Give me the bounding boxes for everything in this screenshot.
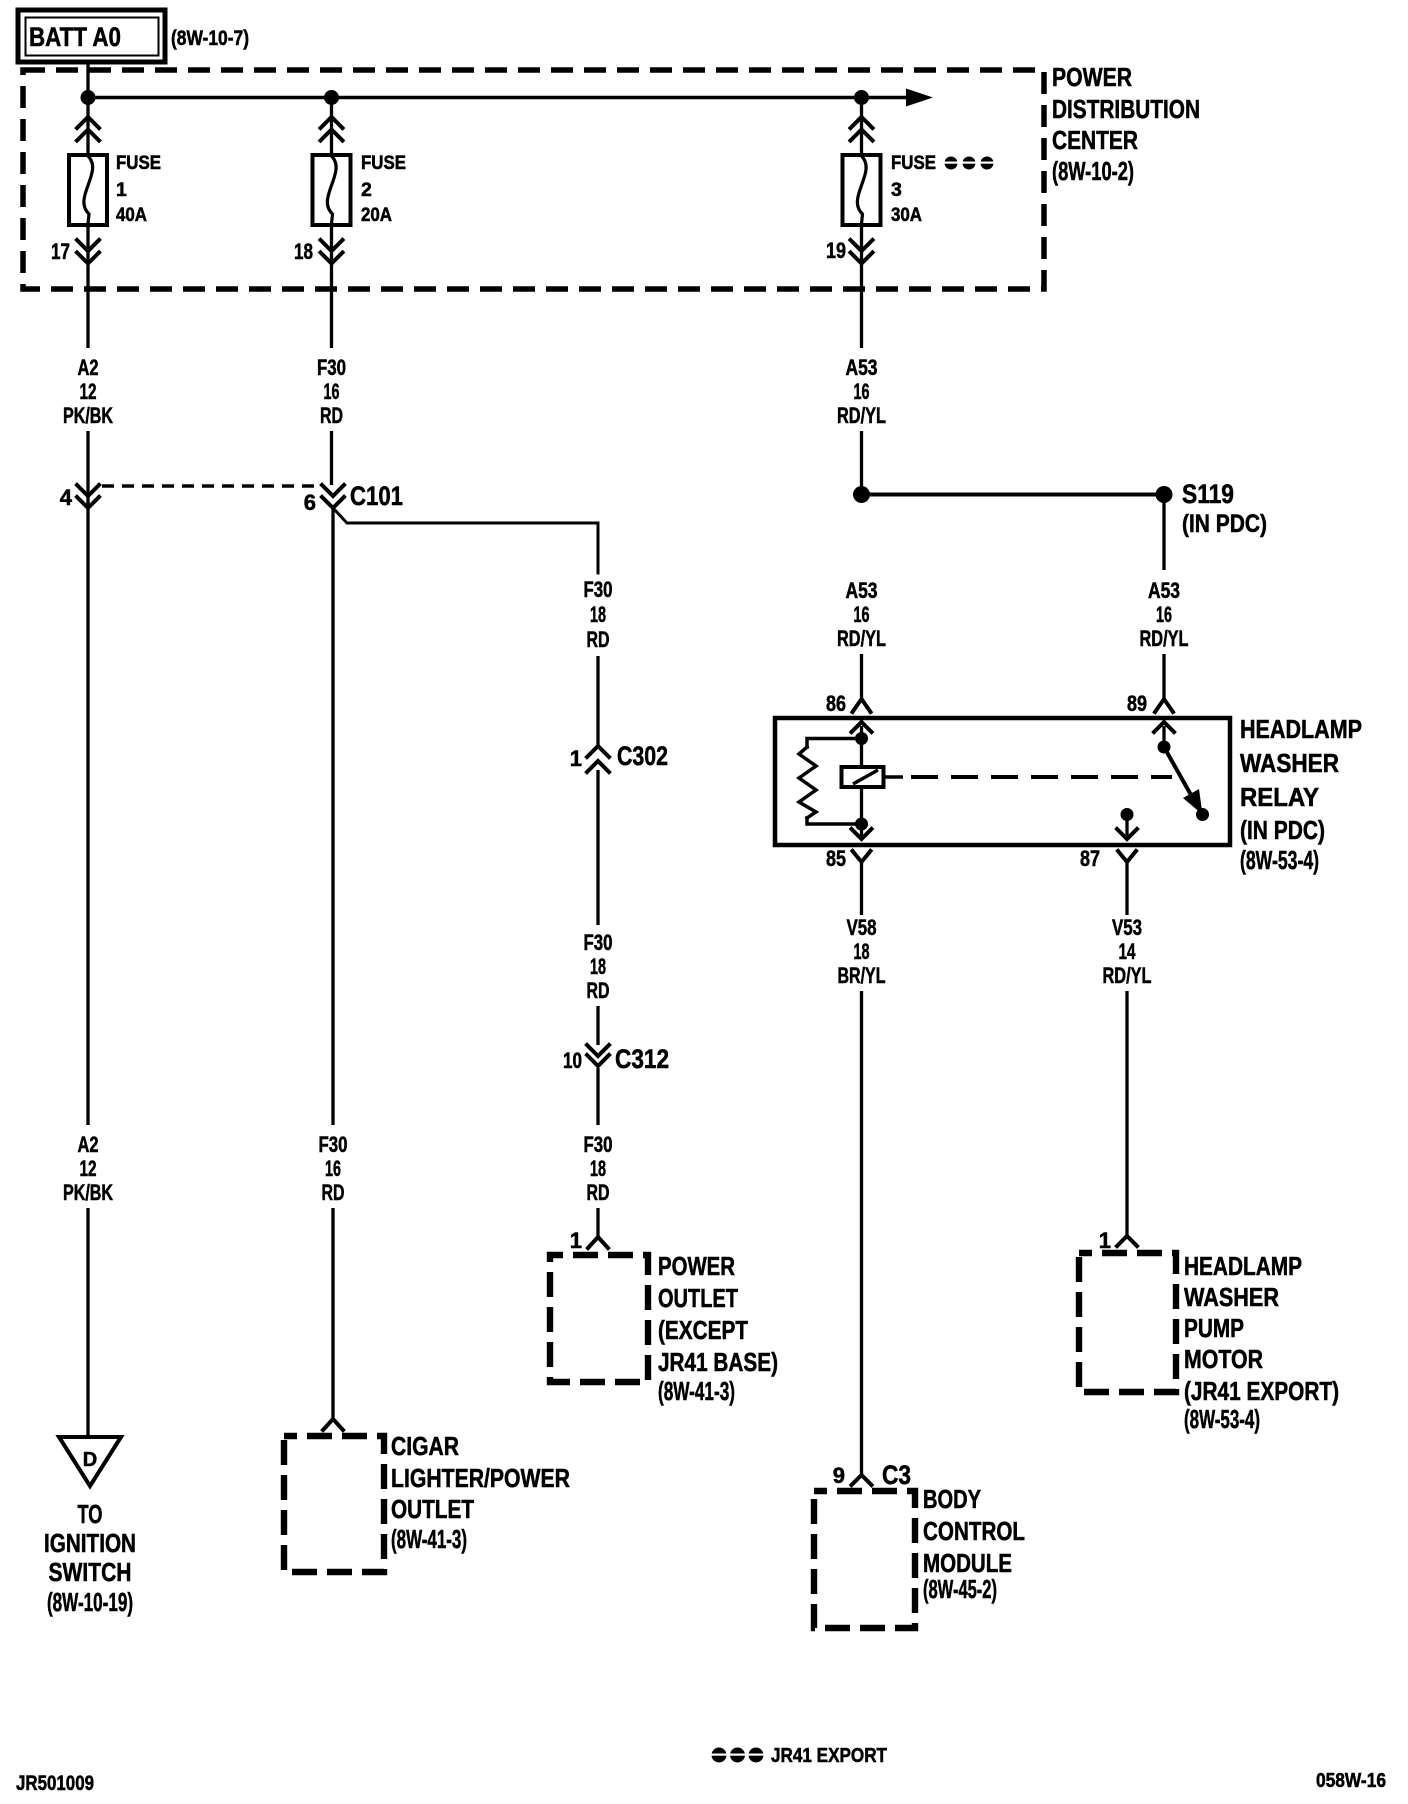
connector C101 chevrons pin 6 [322,485,344,508]
svg-text:3: 3 [891,179,902,201]
svg-text:1: 1 [116,179,127,201]
power distribution center box [23,70,1044,289]
relay pin 86 internal [852,722,872,738]
wire F30 18 below C312 [596,1068,599,1125]
wire label F30 18 RD first [584,577,613,652]
svg-text:MOTOR: MOTOR [1184,1344,1263,1374]
headlamp washer pump motor box [1079,1253,1176,1392]
relay switch pivot node [1158,741,1171,754]
fuse F2 20A [313,152,407,226]
svg-text:WASHER: WASHER [1184,1282,1279,1312]
svg-text:86: 86 [826,691,846,716]
svg-text:12: 12 [80,1156,97,1181]
svg-text:F30: F30 [584,1132,613,1157]
svg-text:C3: C3 [882,1460,911,1490]
svg-text:RD: RD [587,627,610,652]
pin 10 label C312 [563,1048,582,1073]
relay pin 85 internal [852,824,872,839]
wire A53 to relay pin 89 [1155,654,1173,712]
svg-text:6: 6 [304,490,316,515]
svg-text:18: 18 [294,239,313,264]
svg-text:14: 14 [1119,939,1137,964]
wire label A2 12 PK/BK lower [63,1132,113,1205]
junction node fuse 2 tap [324,90,339,105]
wire coil bottom [860,787,863,824]
svg-text:A53: A53 [1148,578,1180,603]
label S119 (IN PDC) [1182,479,1267,538]
wire BATT A0 to bus [86,62,89,98]
wire F30 18 between C302 and label [596,770,599,925]
svg-text:85: 85 [826,846,846,871]
wire V53 to washer pump motor [1117,991,1137,1246]
svg-text:(EXCEPT: (EXCEPT [658,1315,748,1345]
pin 1 label power outlet [570,1228,582,1253]
wire S119 down [1162,495,1165,571]
fuse 3 option dots [945,157,994,170]
relay actuation dashed line [884,775,1172,779]
wire F30 18 above C312 [596,1006,599,1045]
svg-text:JR501009: JR501009 [16,1772,94,1795]
svg-text:POWER: POWER [658,1251,735,1281]
svg-text:IGNITION: IGNITION [44,1528,136,1558]
wire label A2 12 PK/BK upper [63,355,113,428]
cigar lighter/power outlet box [284,1436,384,1572]
svg-text:BODY: BODY [923,1484,981,1514]
svg-text:BATT A0: BATT A0 [29,22,121,52]
branch wire C101 to F30 18 RD [333,508,598,573]
svg-text:16: 16 [854,602,870,627]
relay switch blade [1164,747,1209,821]
svg-text:20A: 20A [361,204,392,226]
page number 058W-16 [1316,1770,1386,1792]
svg-text:89: 89 [1127,691,1147,716]
wire splice S119 [862,493,1165,497]
label CIGAR LIGHTER/POWER OUTLET (8W-41-3) [391,1431,570,1554]
svg-text:(IN PDC): (IN PDC) [1182,510,1267,538]
pin 1 label C302 [570,746,582,771]
connector C101 label [350,481,403,511]
svg-text:RD: RD [587,978,610,1003]
svg-text:A53: A53 [846,578,878,603]
svg-text:9: 9 [833,1463,845,1488]
svg-text:JR41 EXPORT: JR41 EXPORT [771,1745,887,1767]
connector 4 chevrons [77,485,99,508]
svg-text:16: 16 [325,1156,341,1181]
svg-text:17: 17 [51,239,70,264]
svg-text:PK/BK: PK/BK [63,403,113,428]
label HEADLAMP WASHER PUMP MOTOR (JR41 EXPORT) (8W-53-4) [1184,1251,1339,1434]
pin 17 label [51,239,70,264]
pin 6 label [304,490,316,515]
pin 86 label [826,691,846,716]
svg-text:BR/YL: BR/YL [838,963,886,988]
power outlet box [550,1255,648,1382]
svg-text:F30: F30 [584,930,613,955]
svg-text:(IN PDC): (IN PDC) [1240,815,1325,845]
svg-text:4: 4 [60,485,73,510]
fuse 1 output pin 17 connector [77,225,99,348]
svg-text:FUSE: FUSE [361,152,406,174]
svg-text:18: 18 [590,1156,606,1181]
label HEADLAMP WASHER RELAY (IN PDC) (8W-53-4) [1240,714,1362,875]
svg-text:(8W-10-7): (8W-10-7) [171,27,249,50]
off-page connector D triangle [59,1437,121,1486]
svg-text:(8W-41-3): (8W-41-3) [391,1524,467,1554]
svg-text:A2: A2 [78,1132,99,1157]
wire label F30 16 RD lower [319,1132,348,1205]
svg-text:TO: TO [78,1499,103,1529]
svg-text:(8W-10-19): (8W-10-19) [47,1587,133,1617]
svg-text:DISTRIBUTION: DISTRIBUTION [1052,94,1200,124]
fuse F1 40A [69,152,161,226]
svg-text:10: 10 [563,1048,582,1073]
body control module box [814,1491,915,1628]
svg-text:OUTLET: OUTLET [391,1494,474,1524]
wire F30 vertical segment below C101 [331,508,334,1125]
connector C302 label [617,741,668,771]
wire A2 vertical segment [86,431,89,1125]
svg-text:18: 18 [590,602,606,627]
svg-text:RD: RD [320,403,343,428]
relay pin 89 internal [1154,722,1174,747]
relay coil bottom node [855,818,868,831]
svg-text:RD/YL: RD/YL [837,403,886,428]
reference (8W-10-7) [171,27,249,50]
legend JR41 EXPORT dots [712,1745,888,1767]
wire coil top [860,739,863,768]
pin 18 label [294,239,313,264]
pin 89 label [1127,691,1147,716]
svg-text:CONTROL: CONTROL [923,1516,1025,1546]
connector C302 chevrons [587,746,609,772]
svg-text:CENTER: CENTER [1052,125,1138,155]
svg-text:RD: RD [322,1180,345,1205]
svg-text:HEADLAMP: HEADLAMP [1240,714,1362,744]
svg-text:C101: C101 [350,481,403,511]
svg-text:RD/YL: RD/YL [1103,963,1152,988]
svg-text:FUSE: FUSE [116,152,161,174]
svg-text:16: 16 [324,379,340,404]
svg-text:058W-16: 058W-16 [1316,1770,1386,1792]
connector C312 chevrons [587,1045,609,1066]
svg-text:87: 87 [1080,846,1100,871]
bus wire B+ with arrow [88,89,933,107]
wire A2 to ignition switch [86,1208,89,1437]
wire F30 above C101 [330,431,333,485]
svg-text:40A: 40A [116,204,147,226]
pin 19 label [826,238,846,263]
svg-text:(8W-10-2): (8W-10-2) [1052,156,1134,186]
svg-text:SWITCH: SWITCH [49,1557,132,1587]
sheet number JR501009 [16,1772,94,1795]
svg-text:V58: V58 [847,915,877,940]
wire bus to fuse 2 with connector chevrons [321,98,343,156]
relay pin 85 external connector [853,851,871,915]
svg-text:F30: F30 [319,1132,348,1157]
svg-text:30A: 30A [891,204,922,226]
svg-text:F30: F30 [317,355,346,380]
svg-text:16: 16 [1156,602,1172,627]
label BODY CONTROL MODULE (8W-45-2) [923,1484,1025,1604]
wire F30 to cigar lighter connector [323,1208,343,1430]
connector C312 label [615,1044,669,1074]
dashed link C101 [102,484,316,488]
wire to power outlet pin 1 connector [588,1208,608,1248]
relay pin 87 external connector [1118,851,1136,915]
label POWER OUTLET (EXCEPT JR41 BASE) (8W-41-3) [658,1251,778,1406]
svg-text:S119: S119 [1182,479,1234,509]
svg-text:18: 18 [854,939,870,964]
svg-text:(8W-45-2): (8W-45-2) [923,1574,997,1604]
svg-text:RD/YL: RD/YL [1140,626,1189,651]
wire label F30 18 RD third [584,1132,613,1205]
pin 9 label [833,1463,845,1488]
wire A53 to relay pin 86 [853,654,871,712]
svg-text:HEADLAMP: HEADLAMP [1184,1251,1302,1281]
relay coil top node [855,732,868,745]
pin 4 label [60,485,73,510]
svg-text:(8W-41-3): (8W-41-3) [658,1376,735,1406]
pin 85 label [826,846,846,871]
headlamp washer relay box [775,718,1230,845]
junction node fuse 1 tap [81,90,96,105]
svg-text:1: 1 [570,746,582,771]
wire F30 18 above C302 [596,656,599,746]
wire V58 to body control module [852,991,872,1485]
wire label A53 16 RD/YL upper [837,355,886,428]
svg-text:CIGAR: CIGAR [391,1431,459,1461]
svg-text:V53: V53 [1112,915,1142,940]
svg-text:12: 12 [80,379,97,404]
label TO IGNITION SWITCH (8W-10-19) [44,1499,136,1617]
splice junction left [853,486,870,503]
svg-text:D: D [83,1449,97,1471]
relay suppression resistor [799,739,862,825]
wire label F30 18 RD second [584,930,613,1003]
connector C3 label [882,1460,911,1490]
svg-text:2: 2 [361,179,372,201]
svg-text:(JR41 EXPORT): (JR41 EXPORT) [1184,1376,1339,1406]
wire label V58 18 BR/YL [838,915,886,988]
fuse F3 30A [843,152,937,226]
wire A53 to splice [860,431,863,495]
svg-text:C312: C312 [615,1044,669,1074]
pin 87 label [1080,846,1100,871]
label POWER DISTRIBUTION CENTER (8W-10-2) [1052,62,1200,186]
wire bus to fuse 3 with connector chevrons [851,98,873,156]
svg-text:FUSE: FUSE [891,152,936,174]
svg-text:19: 19 [826,238,846,263]
svg-text:RD: RD [587,1180,610,1205]
svg-text:A53: A53 [846,355,878,380]
svg-text:A2: A2 [78,355,99,380]
fuse 3 output pin 19 connector [851,225,873,348]
battery feed BATT A0 [18,10,165,62]
svg-text:18: 18 [590,954,606,979]
wire label V53 14 RD/YL [1103,915,1152,988]
splice S119 node [1156,486,1173,503]
svg-text:JR41 BASE): JR41 BASE) [658,1347,778,1377]
wire label F30 16 RD upper [317,355,346,428]
svg-text:16: 16 [854,379,870,404]
svg-text:OUTLET: OUTLET [658,1283,738,1313]
svg-text:RD/YL: RD/YL [837,626,886,651]
svg-text:POWER: POWER [1052,62,1132,92]
pin 1 label pump motor [1099,1228,1111,1253]
wire bus to fuse 1 with connector chevrons [77,98,99,156]
relay coil [842,767,884,787]
wire label A53 16 RD/YL right branch [1140,578,1189,651]
svg-text:1: 1 [570,1228,582,1253]
svg-text:F30: F30 [584,577,613,602]
svg-text:1: 1 [1099,1228,1111,1253]
svg-text:RELAY: RELAY [1240,782,1319,812]
svg-text:(8W-53-4): (8W-53-4) [1184,1404,1260,1434]
svg-text:(8W-53-4): (8W-53-4) [1240,845,1319,875]
svg-text:PUMP: PUMP [1184,1313,1244,1343]
svg-text:LIGHTER/POWER: LIGHTER/POWER [391,1463,570,1493]
wire label A53 16 RD/YL left branch [837,578,886,651]
svg-text:C302: C302 [617,741,668,771]
fuse 2 output pin 18 connector [321,225,343,348]
svg-text:WASHER: WASHER [1240,748,1339,778]
svg-text:PK/BK: PK/BK [63,1180,113,1205]
relay pin 87 internal [1117,808,1137,839]
junction node fuse 3 tap [854,90,869,105]
